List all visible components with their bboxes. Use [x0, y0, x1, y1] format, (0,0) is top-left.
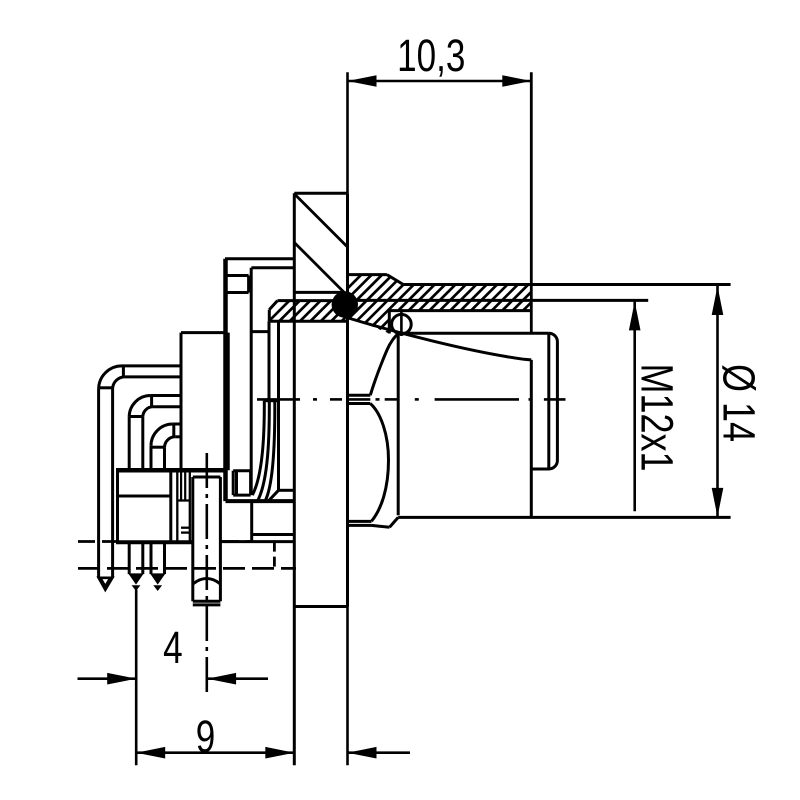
thread section hatching (M12 thread, cut) [296, 265, 610, 340]
mounting panel hatch lines [295, 195, 348, 248]
center pin dome [194, 579, 220, 584]
lower-right cavity [250, 501, 253, 541]
bottom step lines [348, 520, 372, 523]
rear housing second step [251, 266, 294, 269]
panel thickness arrow [348, 751, 411, 754]
shoulder chamfer [387, 275, 403, 285]
rear flange strip hatching [250, 265, 419, 340]
contact 1 pin tip [99, 578, 113, 590]
thread band bottom edge [389, 309, 531, 312]
rear housing inner wall [250, 268, 253, 495]
bottom face + dia-14 extension [398, 516, 730, 519]
contact 2 pin tip [128, 573, 144, 584]
front face lower [530, 360, 533, 518]
svg-text:10,3: 10,3 [397, 30, 465, 81]
housing notch [225, 274, 249, 277]
waist groove upper line [348, 394, 371, 397]
center solder pin [193, 476, 221, 479]
center contact curve 3 [265, 401, 275, 501]
mating tip rounded outline [531, 333, 557, 469]
center pin centerline [206, 453, 209, 694]
insulator top edge [181, 331, 226, 334]
pocket chamfer [268, 490, 278, 501]
contact pocket left wall [268, 321, 271, 400]
dimension 4 extension [135, 590, 138, 766]
detail circle centerline [400, 311, 403, 336]
thread shoulder top edge [348, 273, 387, 276]
O-ring seal (black) [332, 291, 358, 317]
block side strip [176, 470, 178, 542]
upper body curve [370, 334, 398, 395]
rear housing top step [225, 257, 294, 260]
dia-14 dimension line [716, 286, 719, 517]
center contact curve 2 [258, 401, 270, 501]
lower body bulge curve [370, 404, 388, 522]
thread crest line + dia-14 extension [403, 283, 730, 286]
carrier step edge [251, 330, 269, 333]
hidden edge upper [78, 540, 116, 543]
insulator left edge [180, 333, 183, 471]
svg-text:4: 4 [163, 622, 183, 673]
contact 2 elbow [151, 394, 181, 397]
thread undercut edge [388, 311, 391, 334]
svg-text:Ø 14: Ø 14 [714, 364, 765, 442]
contact block outline [116, 468, 227, 473]
svg-text:M12x1: M12x1 [632, 364, 683, 472]
mounting panel outline [294, 192, 347, 195]
inner sleeve left edge [397, 333, 400, 515]
contact 3 pin legs [150, 446, 153, 471]
housing bottom shelf [226, 499, 295, 503]
center pin bottom [193, 600, 221, 603]
svg-text:9: 9 [196, 711, 216, 762]
thread root line + M12 extension [348, 299, 649, 302]
contact 3 elbow [173, 423, 181, 426]
pocket small rect [233, 469, 250, 472]
bottom slope to chamfer [372, 525, 390, 527]
bottom chamfer [390, 517, 399, 527]
sealing cone silhouette [345, 317, 531, 360]
hidden edge vertical [273, 542, 276, 569]
horizontal centerline [257, 398, 300, 401]
dimension 9 line [136, 751, 294, 754]
contact 1 elbow (outermost) [122, 364, 181, 367]
contact pocket right wall [277, 321, 280, 490]
dimension 4 line [78, 677, 137, 680]
pocket top edge [264, 399, 279, 402]
panel bore edge [294, 291, 344, 294]
dimension 10,3 extension left [346, 72, 349, 193]
housing left wall (thick) [223, 259, 228, 501]
M12 dimension line [633, 301, 636, 511]
contact 3 pin tip [150, 573, 166, 584]
contact 1 pin legs [97, 388, 100, 577]
waist groove lower line [348, 402, 371, 405]
dimension 10,3 line [348, 80, 532, 83]
mating tip tangent edge [547, 333, 550, 469]
front face upper [530, 72, 533, 333]
center contact curve 1 [252, 401, 264, 495]
detail circle (locating feature) [392, 314, 412, 334]
contact 2 pin legs [128, 417, 131, 470]
pocket bottom edge [279, 489, 295, 492]
rear flange strip outline [278, 299, 334, 302]
inner sleeve top edge [398, 332, 549, 335]
panel extension line (right) [346, 607, 349, 766]
hidden edge lower [78, 567, 296, 570]
